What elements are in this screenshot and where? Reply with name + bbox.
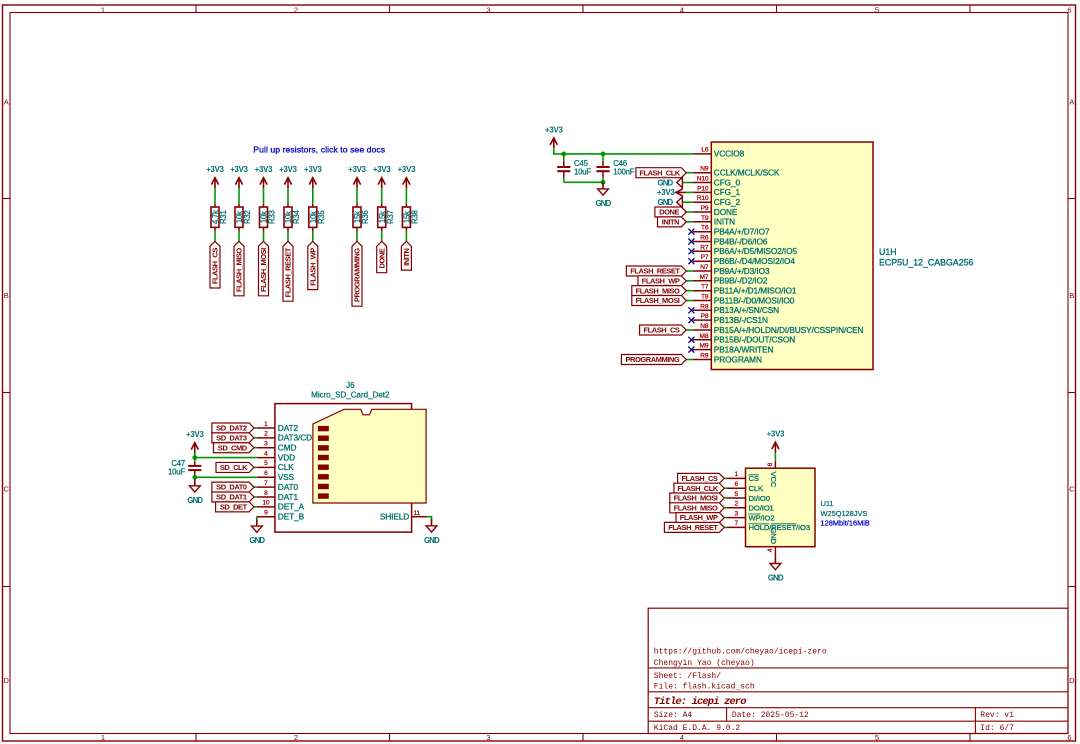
wire (214, 232, 216, 242)
svg-text:A: A (4, 98, 9, 107)
svg-text:GND: GND (769, 528, 778, 545)
wire (724, 526, 727, 528)
no-connect T6 (688, 229, 694, 235)
power +3V3 (R32) (230, 165, 248, 188)
hierarchical label SD_CMD (214, 443, 255, 453)
svg-text:VDD: VDD (278, 452, 295, 462)
svg-text:FLASH_MOSI: FLASH_MOSI (259, 248, 268, 292)
svg-text:CFG_1: CFG_1 (714, 187, 741, 197)
wire (287, 188, 289, 204)
svg-text:5: 5 (734, 491, 738, 498)
wire (724, 487, 727, 489)
svg-text:FLASH_CLK: FLASH_CLK (639, 168, 681, 177)
svg-text:R35: R35 (317, 210, 326, 224)
pin R7 PB6A/+/D5/MISO2/IO5 (693, 244, 798, 256)
svg-text:R33: R33 (268, 210, 277, 224)
power +3V3 (R37) (373, 165, 391, 188)
wire (686, 290, 693, 292)
power +3V3 (SD VDD) (186, 430, 204, 458)
wire (254, 486, 257, 488)
wire (254, 447, 257, 449)
ground (U11) (768, 557, 784, 583)
svg-text:FLASH_MISO: FLASH_MISO (636, 286, 680, 295)
svg-text:DET_A: DET_A (278, 502, 305, 512)
no-connect M9 (688, 347, 694, 353)
svg-text:CCLK/MCLK/SCK: CCLK/MCLK/SCK (714, 168, 780, 178)
svg-text:5: 5 (875, 733, 879, 742)
connector J6 Micro_SD_Card_Det2 body (275, 381, 426, 532)
svg-text:FLASH_CS: FLASH_CS (682, 474, 718, 483)
svg-text:PROGRAMMING: PROGRAMMING (625, 355, 679, 364)
hierarchical label FLASH_MOSI (632, 295, 687, 305)
svg-text:M8: M8 (700, 333, 709, 340)
svg-text:C: C (3, 485, 9, 494)
svg-text:L6: L6 (701, 147, 708, 154)
capacitor C46 100nF (596, 154, 634, 182)
svg-text:CMD: CMD (278, 443, 297, 453)
wire (724, 517, 727, 519)
svg-text:Date: 2025-05-12: Date: 2025-05-12 (732, 711, 809, 720)
wire (238, 232, 240, 242)
hierarchical label FLASH_WP (308, 241, 318, 289)
svg-text:+3V3: +3V3 (186, 430, 204, 439)
svg-text:+3V3: +3V3 (398, 165, 416, 174)
resistor R32 10k (235, 204, 252, 232)
svg-text:DONE: DONE (714, 207, 738, 217)
pin 2 DO/IO1 (U11) (727, 501, 774, 513)
svg-text:+3V3: +3V3 (230, 165, 248, 174)
svg-text:SD_CMD: SD_CMD (218, 443, 248, 452)
svg-text:CLK: CLK (278, 462, 294, 472)
pin P7 PB6B/-/D4/MOSI2/IO4 (693, 254, 795, 266)
resistor R34 10k (284, 204, 301, 232)
svg-text:SD_DAT1: SD_DAT1 (216, 493, 247, 502)
pin 7 HOLD/RESET/IO3 (U11) (727, 520, 810, 532)
power +3V3 (R38) (398, 165, 416, 188)
svg-text:11: 11 (414, 510, 421, 517)
wire (214, 188, 216, 204)
wire (238, 188, 240, 204)
pin 8 VCC (U11) (767, 461, 778, 488)
ground (N10) (657, 177, 692, 187)
pin N8 PB15A/+/HOLDN/DI/BUSY/CSSPIN/CEN (693, 323, 864, 335)
svg-text:8: 8 (767, 462, 774, 466)
hierarchical label FLASH_RESET (283, 241, 293, 301)
svg-text:FLASH_RESET: FLASH_RESET (630, 267, 680, 276)
capacitor C45 10uF (557, 154, 591, 182)
hierarchical label FLASH_CLK (636, 168, 686, 178)
pin 8 DAT1 (J6) (257, 490, 299, 502)
svg-text:PB6A/+/D5/MISO2/IO5: PB6A/+/D5/MISO2/IO5 (714, 246, 798, 256)
wire (686, 211, 693, 213)
svg-text:R34: R34 (292, 210, 301, 224)
hierarchical label FLASH_MISO (234, 241, 244, 295)
svg-text:+3V3: +3V3 (206, 165, 224, 174)
svg-text:6: 6 (1067, 6, 1071, 15)
svg-text:R32: R32 (243, 210, 252, 224)
svg-text:DO/IO1: DO/IO1 (749, 504, 774, 513)
power +3V3 (R34) (279, 165, 297, 188)
power +3V3 (R36) (348, 165, 366, 188)
svg-text:R31: R31 (219, 210, 228, 224)
pin R6 PB4B/-/D6/IO6 (693, 235, 768, 247)
svg-text:N9: N9 (700, 166, 709, 173)
svg-text:FLASH_WP: FLASH_WP (308, 248, 317, 286)
wire (381, 188, 383, 204)
svg-text:Id: 6/7: Id: 6/7 (980, 724, 1014, 733)
pin 6 CLK (U11) (727, 481, 763, 493)
svg-text:https://github.com/cheyao/icep: https://github.com/cheyao/icepi-zero (654, 648, 827, 657)
svg-text:T7: T7 (701, 284, 709, 291)
svg-text:GND: GND (657, 198, 673, 207)
pin 5 DI/IO0 (U11) (727, 491, 770, 503)
pin M7 PB9B/-/D2/IO2 (693, 274, 768, 286)
wire (256, 517, 258, 520)
svg-text:DET_B: DET_B (278, 512, 305, 522)
hierarchical label INITN (658, 217, 687, 227)
hierarchical label FLASH_CS (640, 325, 687, 335)
wire (254, 466, 257, 468)
power +3V3 (R31) (206, 165, 224, 188)
power +3V3 (P10) (657, 188, 693, 197)
junction (561, 152, 566, 157)
svg-text:GND: GND (596, 199, 612, 208)
svg-text:N10: N10 (697, 176, 709, 183)
wire (356, 232, 358, 242)
svg-text:D: D (3, 676, 9, 685)
FPGA U1H ECP5U_12_CABGA256 body (711, 142, 973, 370)
svg-text:R37: R37 (386, 210, 395, 224)
svg-text:1: 1 (101, 733, 105, 742)
resistor R35 10k (309, 204, 326, 232)
power +3V3 (R33) (255, 165, 273, 188)
hierarchical label PROGRAMMING (352, 241, 362, 306)
svg-text:2: 2 (294, 6, 298, 15)
pin P8 PB13B/-/CS1N (693, 313, 768, 325)
svg-text:DONE: DONE (659, 208, 679, 217)
svg-text:FLASH_WP: FLASH_WP (642, 276, 680, 285)
hierarchical label FLASH_MOSI (670, 493, 725, 503)
svg-text:128Mbit/16MiB: 128Mbit/16MiB (821, 519, 870, 528)
hierarchical label SD_CLK (216, 462, 254, 472)
pin 11 SHIELD (J6) (380, 510, 427, 522)
resistor R37 15k (378, 204, 395, 232)
wire (312, 188, 314, 204)
svg-text:6: 6 (264, 470, 268, 477)
pin T9 INITN (693, 215, 735, 227)
pin 7 DAT0 (J6) (257, 480, 299, 492)
resistor R33 10k (260, 204, 277, 232)
svg-text:T6: T6 (701, 225, 709, 232)
wire (405, 188, 407, 204)
power +3V3 (VCCIO8 rail) (545, 125, 563, 148)
pin P10 CFG_1 (693, 185, 741, 197)
svg-text:VSS: VSS (278, 472, 295, 482)
svg-text:CLK: CLK (749, 484, 764, 493)
wire (254, 496, 257, 498)
svg-text:3: 3 (734, 510, 738, 517)
svg-text:R8: R8 (700, 303, 709, 310)
svg-text:A: A (1069, 98, 1074, 107)
wire (686, 270, 693, 272)
wire VDD (195, 457, 257, 459)
svg-text:T9: T9 (701, 215, 709, 222)
svg-text:T8: T8 (701, 294, 709, 301)
svg-text:FLASH_MOSI: FLASH_MOSI (674, 494, 718, 503)
wire (356, 188, 358, 204)
svg-text:SD_DAT2: SD_DAT2 (216, 424, 247, 433)
svg-text:P7: P7 (701, 254, 709, 261)
pin 3 WP/IO2 (U11) (727, 510, 775, 522)
svg-text:PB9A/+/D3/IO3: PB9A/+/D3/IO3 (714, 266, 770, 276)
hierarchical label DONE (377, 241, 387, 272)
svg-text:PB4B/-/D6/IO6: PB4B/-/D6/IO6 (714, 236, 768, 246)
resistor R36 15k (353, 204, 370, 232)
svg-text:6: 6 (1067, 733, 1071, 742)
pin 3 CMD (J6) (257, 441, 297, 453)
hierarchical label FLASH_MOSI (259, 241, 269, 295)
svg-text:KiCad E.D.A. 9.0.2: KiCad E.D.A. 9.0.2 (654, 724, 741, 733)
svg-text:CS: CS (749, 474, 759, 483)
pin 4 VDD (J6) (257, 450, 295, 462)
svg-text:9: 9 (264, 510, 268, 517)
svg-text:+3V3: +3V3 (279, 165, 297, 174)
svg-text:P10: P10 (697, 185, 709, 192)
hierarchical label FLASH_WP (638, 276, 686, 286)
svg-text:1: 1 (734, 471, 738, 478)
svg-text:PB11A/+/D1/MISO/IO1: PB11A/+/D1/MISO/IO1 (714, 286, 797, 296)
svg-text:7: 7 (734, 520, 738, 527)
wire (263, 188, 265, 204)
wire (686, 172, 693, 174)
svg-text:SD_CLK: SD_CLK (220, 463, 248, 472)
svg-text:GND: GND (249, 536, 265, 545)
hierarchical label SD_DET (216, 502, 254, 512)
no-connect P7 (688, 258, 694, 264)
svg-text:3: 3 (486, 733, 490, 742)
svg-text:CFG_0: CFG_0 (714, 177, 741, 187)
pin 6 VSS (J6) (257, 470, 295, 482)
pin 2 DAT3/CD (J6) (257, 431, 312, 443)
svg-text:1: 1 (264, 421, 268, 428)
svg-text:FLASH_MISO: FLASH_MISO (674, 503, 718, 512)
svg-text:PB18A/WRITEN: PB18A/WRITEN (714, 344, 774, 354)
power +3V3 (U11 VCC) (767, 430, 785, 462)
wire (724, 477, 727, 479)
svg-text:+3V3: +3V3 (767, 430, 785, 439)
title block (648, 608, 1068, 733)
svg-text:Rev: v1: Rev: v1 (980, 711, 1014, 720)
svg-text:R9: R9 (700, 353, 709, 360)
svg-text:FLASH_CLK: FLASH_CLK (677, 484, 719, 493)
svg-text:2: 2 (264, 431, 268, 438)
ground (C47) (187, 477, 203, 505)
pin T6 PB4A/+/D7/IO7 (693, 225, 770, 237)
hierarchical label FLASH_MISO (632, 286, 687, 296)
pin N10 CFG_0 (693, 176, 741, 188)
junction (192, 475, 197, 480)
pin 1 CS (U11) (727, 471, 759, 483)
capacitor C47 10uF (168, 458, 201, 478)
svg-text:C: C (1069, 485, 1075, 494)
svg-text:File: flash.kicad_sch: File: flash.kicad_sch (654, 683, 755, 692)
hierarchical label SD_DAT3 (212, 433, 254, 443)
svg-text:SHIELD: SHIELD (380, 512, 409, 522)
pin 9 DET_B (J6) (257, 510, 305, 522)
ground (C45/C46) (596, 182, 612, 208)
svg-text:100nF: 100nF (613, 167, 635, 176)
wire (312, 232, 314, 242)
no-connect M8 (688, 337, 694, 343)
junction (192, 455, 197, 460)
svg-text:PB15B/-/DOUT/CSON: PB15B/-/DOUT/CSON (714, 335, 795, 345)
svg-text:DI/IO0: DI/IO0 (749, 494, 770, 503)
hierarchical label SD_DAT1 (212, 492, 254, 502)
pin R8 PB13A/+/SN/CSN (693, 303, 779, 315)
svg-text:SD_DAT0: SD_DAT0 (216, 483, 247, 492)
pin 4 GND (U11) (767, 528, 778, 557)
wire (254, 427, 257, 429)
svg-text:5: 5 (264, 460, 268, 467)
wire VCCIO8 rail (554, 148, 693, 154)
svg-text:DAT1: DAT1 (278, 492, 299, 502)
hierarchical label FLASH_MISO (670, 503, 725, 513)
wire (724, 497, 727, 499)
no-connect R7 (688, 248, 694, 254)
wire (686, 300, 693, 302)
svg-text:N8: N8 (700, 323, 709, 330)
svg-text:R38: R38 (411, 210, 420, 224)
svg-text:M9: M9 (700, 343, 709, 350)
svg-text:INITN: INITN (662, 217, 679, 226)
svg-text:PB6B/-/D4/MOSI2/IO4: PB6B/-/D4/MOSI2/IO4 (714, 256, 796, 266)
hierarchical label FLASH_WP (676, 513, 724, 523)
hierarchical label FLASH_CS (678, 473, 725, 483)
svg-text:J6: J6 (346, 381, 355, 390)
svg-text:Title: icepi zero: Title: icepi zero (654, 696, 746, 708)
svg-text:DAT3/CD: DAT3/CD (278, 433, 312, 443)
svg-text:PROGRAMMING: PROGRAMMING (353, 248, 362, 302)
pin L6 VCCIO8 (693, 147, 745, 159)
svg-text:FLASH_MISO: FLASH_MISO (235, 248, 244, 292)
svg-text:FLASH_RESET: FLASH_RESET (668, 523, 718, 532)
svg-text:6: 6 (734, 481, 738, 488)
hierarchical label FLASH_RESET (664, 522, 724, 532)
svg-text:U11: U11 (821, 499, 834, 508)
svg-text:2: 2 (734, 501, 738, 508)
svg-text:10: 10 (262, 500, 269, 507)
svg-text:DAT0: DAT0 (278, 482, 299, 492)
pin N9 CCLK/MCLK/SCK (693, 166, 780, 178)
hierarchical label DONE (655, 207, 686, 217)
svg-text:FLASH_RESET: FLASH_RESET (284, 247, 293, 297)
flash U11 W25Q128JVS body (746, 468, 870, 547)
resistor R31 4.7k (211, 204, 228, 232)
svg-text:DAT2: DAT2 (278, 423, 299, 433)
svg-text:Size: A4: Size: A4 (654, 711, 693, 720)
svg-text:M7: M7 (700, 274, 709, 281)
hierarchical label SD_DAT2 (212, 423, 254, 433)
junction (601, 152, 606, 157)
svg-text:4: 4 (680, 6, 684, 15)
svg-text:DONE: DONE (377, 248, 386, 268)
svg-text:B: B (1069, 291, 1074, 300)
svg-text:+3V3: +3V3 (348, 165, 366, 174)
ground (R10) (657, 197, 692, 207)
pin M9 PB18A/WRITEN (693, 343, 774, 355)
pin P9 DONE (693, 205, 738, 217)
wire (254, 437, 257, 439)
pin R10 CFG_2 (693, 195, 741, 207)
svg-text:N7: N7 (700, 264, 709, 271)
svg-text:R10: R10 (697, 195, 709, 202)
svg-text:Micro_SD_Card_Det2: Micro_SD_Card_Det2 (311, 391, 390, 400)
wire (686, 221, 693, 223)
svg-text:4: 4 (264, 450, 268, 457)
svg-text:3: 3 (486, 6, 490, 15)
svg-text:HOLD/RESET/IO3: HOLD/RESET/IO3 (749, 523, 810, 532)
wire VSS (195, 476, 257, 478)
wire (427, 517, 432, 521)
svg-text:WP/IO2: WP/IO2 (749, 513, 775, 522)
svg-text:+3V3: +3V3 (304, 165, 322, 174)
svg-text:GND: GND (424, 536, 440, 545)
svg-text:P8: P8 (701, 313, 709, 320)
no-connect R8 (688, 307, 694, 313)
svg-text:10uF: 10uF (574, 167, 591, 176)
svg-text:GND: GND (768, 574, 784, 583)
svg-text:INITN: INITN (714, 217, 735, 227)
svg-text:R6: R6 (700, 235, 709, 242)
svg-text:W25Q128JVS: W25Q128JVS (821, 509, 868, 518)
svg-text:8: 8 (264, 490, 268, 497)
svg-text:PB13A/+/SN/CSN: PB13A/+/SN/CSN (714, 305, 779, 315)
svg-text:+3V3: +3V3 (255, 165, 273, 174)
wire (254, 506, 257, 508)
wire (564, 181, 603, 183)
svg-text:FLASH_CS: FLASH_CS (211, 248, 220, 284)
svg-text:4: 4 (680, 733, 684, 742)
pin M8 PB15B/-/DOUT/CSON (693, 333, 795, 345)
svg-text:5: 5 (875, 6, 879, 15)
pin 10 DET_A (J6) (257, 500, 305, 512)
wire (724, 507, 727, 509)
svg-text:Sheet: /Flash/: Sheet: /Flash/ (654, 672, 721, 681)
svg-text:10uF: 10uF (168, 468, 185, 477)
wire (263, 232, 265, 242)
pin 1 DAT2 (J6) (257, 421, 299, 433)
hierarchical label FLASH_CS (210, 241, 220, 288)
svg-text:2: 2 (294, 733, 298, 742)
svg-text:PB15A/+/HOLDN/DI/BUSY/CSSPIN/C: PB15A/+/HOLDN/DI/BUSY/CSSPIN/CEN (714, 325, 864, 335)
pin T8 PB11B/-/D0/MOSI/IO0 (693, 294, 795, 306)
ground (DET_B) (249, 520, 265, 546)
svg-text:4: 4 (767, 548, 774, 552)
pin R9 PROGRAMN (693, 353, 762, 365)
svg-text:7: 7 (264, 480, 268, 487)
svg-text:P9: P9 (701, 205, 709, 212)
pin 5 CLK (J6) (257, 460, 294, 472)
note: pull up resistors (253, 145, 385, 155)
svg-text:D: D (1069, 676, 1075, 685)
svg-text:+3V3: +3V3 (657, 188, 675, 197)
svg-text:R36: R36 (361, 210, 370, 224)
svg-text:+3V3: +3V3 (373, 165, 391, 174)
svg-text:SD_DAT3: SD_DAT3 (216, 434, 247, 443)
svg-text:FLASH_CS: FLASH_CS (644, 326, 680, 335)
junction (601, 180, 606, 185)
svg-text:GND: GND (187, 496, 203, 505)
